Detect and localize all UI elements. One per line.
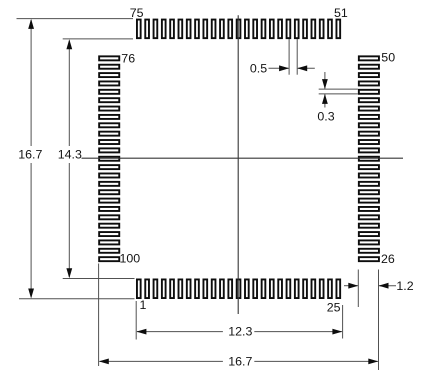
pad 85 [99,132,119,136]
pad 91 [99,182,119,186]
pad 16 [262,279,266,298]
extension line: top of 0.3 pad-width dim [319,88,358,90]
extension line: right of 16.7 horizontal dim / 1.2 dim [378,270,380,371]
pad 81 [99,98,119,102]
pad 57 [287,20,291,39]
pad 100 [99,257,119,261]
pad 72 [162,20,166,39]
pad 93 [99,199,119,203]
pad 21 [303,279,307,298]
pad 71 [170,20,174,39]
pad 88 [99,157,119,161]
pad 84 [99,123,119,127]
pad 60 [262,20,266,39]
pad 7 [187,279,191,298]
pad 17 [270,279,274,298]
pad 47 [359,81,379,85]
extension line: bottom of 16.7 vertical dim [19,298,135,300]
pad 99 [99,249,119,253]
pad 5 [170,279,174,298]
pad 97 [99,232,119,236]
extension line: bottom of 0.3 pad-width dim [319,93,358,95]
pad 79 [99,81,119,85]
pad 82 [99,107,119,111]
pad 89 [99,165,119,169]
extension line: left of 1.2 dim [357,270,359,308]
pad 23 [320,279,324,298]
pad 50 [359,56,379,60]
svg-text:26: 26 [381,252,395,266]
pad 30 [359,224,379,228]
extension line: right of 12.3 horizontal dim [342,305,344,339]
extension line: left of 12.3 horizontal dim [135,301,137,340]
pad 44 [359,107,379,111]
horizontal center line [82,157,404,159]
left pad column: pins 76..100 [99,56,119,261]
pad 4 [162,279,166,298]
pad 46 [359,90,379,94]
pad 73 [154,20,158,39]
pad 18 [278,279,282,298]
svg-text:51: 51 [334,6,348,20]
dimension line 0.3 (pad width, right) [324,72,326,89]
pad 87 [99,148,119,152]
pad 78 [99,73,119,77]
pad 42 [359,123,379,127]
pad 95 [99,215,119,219]
pad 77 [99,65,119,69]
svg-text:25: 25 [327,301,341,315]
pad 70 [179,20,183,39]
pad 96 [99,224,119,228]
pad 11 [220,279,224,298]
pad 80 [99,90,119,94]
pad 6 [179,279,183,298]
pad 8 [195,279,199,298]
dimension line 1.2 (pad length, right) [344,285,358,287]
pad 25 [336,279,340,298]
pad 62 [245,20,249,39]
svg-text:75: 75 [130,6,144,20]
pad 61 [253,20,257,39]
vertical center line [237,15,239,314]
svg-text:1.2: 1.2 [396,279,413,293]
pad 36 [359,173,379,177]
pad 40 [359,140,379,144]
pad 54 [312,20,316,39]
pad 22 [312,279,316,298]
pad 19 [287,279,291,298]
pad 66 [212,20,216,39]
pad 20 [295,279,299,298]
pad 53 [320,20,324,39]
pad 83 [99,115,119,119]
pad 41 [359,132,379,136]
pad 67 [203,20,207,39]
pad 74 [145,20,149,39]
pad 24 [328,279,332,298]
pad 9 [203,279,207,298]
pad 27 [359,249,379,253]
dimension line 16.7 (bottom overall) [100,360,223,362]
dimension line 0.5 (pad pitch, top) [269,67,289,69]
svg-text:1: 1 [140,298,147,312]
pad 90 [99,173,119,177]
pad 34 [359,190,379,194]
pad 63 [237,20,241,39]
pad 31 [359,215,379,219]
pad 48 [359,73,379,77]
pad 98 [99,240,119,244]
pad 58 [278,20,282,39]
pad 45 [359,98,379,102]
pad 10 [212,279,216,298]
svg-text:100: 100 [120,252,141,266]
dimension line 14.3 (vertical) [68,41,70,147]
pad 52 [328,20,332,39]
extension line: top of 16.7 vertical dim [17,18,134,20]
pad 92 [99,190,119,194]
svg-text:14.3: 14.3 [58,148,82,162]
pad 56 [295,20,299,39]
pad 26 [359,257,379,261]
svg-text:0.5: 0.5 [250,61,267,75]
pad 51 [336,20,340,39]
extension line: left of 16.7 horizontal dim [98,264,100,367]
pad 38 [359,157,379,161]
bottom pad row: pins 1..25 [137,279,340,298]
pad 86 [99,140,119,144]
pad 64 [228,20,232,39]
svg-text:12.3: 12.3 [228,325,252,339]
svg-text:50: 50 [381,51,395,65]
pad 33 [359,199,379,203]
pad 37 [359,165,379,169]
pad 2 [145,279,149,298]
pad 13 [237,279,241,298]
right pad column: pins 50..26 [359,56,379,261]
dimension line 12.3 (bottom row span) [137,331,223,333]
pad 75 [137,20,141,39]
pad 39 [359,148,379,152]
svg-text:16.7: 16.7 [228,354,252,368]
pad 49 [359,65,379,69]
pad 32 [359,207,379,211]
pad 59 [270,20,274,39]
top pad row: pins 75..51 [137,20,340,39]
extension line: top of 14.3 vertical dim [63,38,133,40]
extension line: left of 0.5 pitch dim [288,39,290,75]
pad 28 [359,240,379,244]
pad 1 [137,279,141,298]
pad 29 [359,232,379,236]
pad 15 [253,279,257,298]
pad 69 [187,20,191,39]
pad 94 [99,207,119,211]
dimension line 16.7 (left vertical) [30,20,32,146]
extension line: bottom of 14.3 vertical dim [63,278,135,280]
pad 12 [228,279,232,298]
svg-text:76: 76 [121,52,135,66]
svg-text:0.3: 0.3 [317,109,334,123]
pad 3 [154,279,158,298]
pad 35 [359,182,379,186]
pad 68 [195,20,199,39]
pad 55 [303,20,307,39]
pad 65 [220,20,224,39]
svg-text:16.7: 16.7 [18,148,42,162]
extension line: right of 0.5 pitch dim [296,39,298,75]
pad 43 [359,115,379,119]
pad 14 [245,279,249,298]
pad 76 [99,56,119,60]
